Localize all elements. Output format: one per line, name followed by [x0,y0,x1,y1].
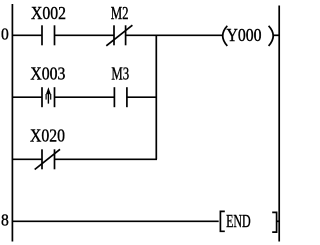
coil Y000 right parenthesis [269,26,274,46]
svg-text:Y000: Y000 [227,25,262,45]
wire rung8 seg END to right rail [277,220,280,222]
wire rung0 seg X002 to M2 [55,34,115,36]
contact M2 right bar [125,25,127,45]
contact X003 rising-edge arrow [48,87,49,103]
wire branch3 seg rail to X020 [12,158,42,160]
wire branch2 seg M3 to junction [127,96,157,98]
contact M2 left bar [113,25,115,45]
contact X020 left bar [41,149,43,169]
contact X003 right bar [54,87,56,107]
contact X002 right bar [54,25,56,45]
right power rail [278,6,280,242]
coil Y000 left parenthesis [223,26,228,46]
contact X003 left bar [41,87,43,107]
instruction END right bracket [272,212,276,232]
wire rung0 seg coil to right rail [273,34,279,36]
wire branch3 seg X020 to junction [55,158,158,160]
left power rail [11,4,13,242]
svg-text:0: 0 [1,25,9,44]
wire rung0 seg rail to X002 [12,34,42,36]
contact M3 left bar [113,87,115,107]
svg-text:8: 8 [1,211,9,230]
svg-text:X020: X020 [30,126,65,146]
contact M2 NC slash [106,25,132,46]
svg-text:X003: X003 [30,63,65,83]
wire rung0 seg M2 to coil [126,34,223,36]
contact X002 left bar [41,25,43,45]
svg-text:M3: M3 [111,63,129,83]
svg-text:END: END [226,211,251,231]
wire junction vertical branch merge [155,35,157,159]
svg-text:M2: M2 [111,3,129,23]
instruction END left bracket [220,211,224,231]
wire branch2 seg rail to X003 [12,96,42,98]
wire branch2 seg X003 to M3 [55,96,115,98]
contact X020 right bar [54,149,56,169]
wire rung8 seg rail to END [12,220,219,222]
contact M3 right bar [126,87,128,107]
contact X020 NC slash [35,149,60,169]
svg-text:X002: X002 [31,3,66,23]
